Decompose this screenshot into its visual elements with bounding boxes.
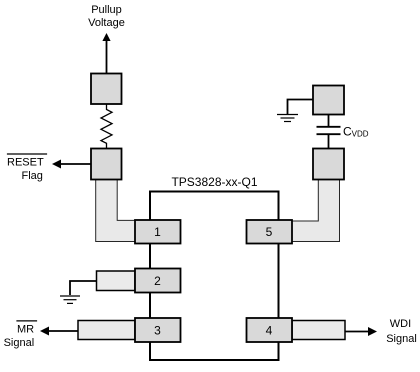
wire light box at pin 3 <box>78 321 135 340</box>
resistor R1 pullup <box>101 104 112 149</box>
pin 4 box <box>247 318 293 342</box>
IC U1 TPS3828-xx-Q1 outline <box>150 192 279 361</box>
svg-text:2: 2 <box>154 274 161 288</box>
svg-text:4: 4 <box>266 324 273 338</box>
node MR Signal label <box>16 320 37 322</box>
pin 2 box <box>135 269 181 293</box>
RESET flag arrow <box>59 163 91 165</box>
box lower pullup terminal / reset node <box>91 149 122 180</box>
svg-text:5: 5 <box>266 225 273 239</box>
svg-text:1: 1 <box>154 225 161 239</box>
pin 5 box <box>247 220 293 244</box>
pullup voltage arrow <box>106 40 108 74</box>
box Cvdd top terminal <box>313 86 344 115</box>
WDI signal arrow <box>345 331 369 333</box>
svg-text:Pullup: Pullup <box>91 4 122 16</box>
wire elbow connector pin1 to pullup box <box>96 179 136 241</box>
svg-text:WDI: WDI <box>390 318 411 330</box>
capacitor C_VDD <box>328 115 330 127</box>
box Cvdd lower terminal / pin5 node <box>313 149 344 180</box>
svg-text:TPS3828-xx-Q1: TPS3828-xx-Q1 <box>171 175 257 189</box>
box upper pullup terminal <box>91 74 122 105</box>
wire elbow connector pin5 to Cvdd box <box>292 179 340 242</box>
svg-text:Signal: Signal <box>4 337 35 349</box>
wire from Cvdd box to ground <box>288 100 314 115</box>
svg-text:Signal: Signal <box>386 333 417 345</box>
pin 3 box <box>135 318 181 342</box>
wire light box at pin 4 <box>292 321 345 340</box>
MR signal arrow <box>47 330 78 332</box>
svg-text:Flag: Flag <box>22 170 43 182</box>
svg-text:RESET: RESET <box>7 157 44 169</box>
pin 1 box <box>135 220 181 244</box>
node RESET Flag label <box>7 153 47 155</box>
svg-text:3: 3 <box>154 324 161 338</box>
svg-text:Voltage: Voltage <box>88 17 125 29</box>
ground right <box>277 114 298 116</box>
ground left at pin 2 <box>60 295 80 297</box>
wire from pin2 light box to ground <box>70 281 97 295</box>
wire light box at pin 2 <box>97 271 136 291</box>
svg-text:MR: MR <box>17 324 34 336</box>
